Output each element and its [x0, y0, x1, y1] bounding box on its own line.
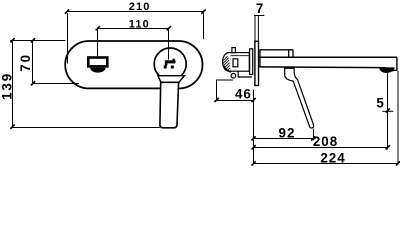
- dim 5 bar: [382, 110, 393, 112]
- handle neck junction line: [161, 81, 179, 83]
- dim 210 line: [67, 11, 204, 13]
- dim 224 line: [254, 163, 398, 165]
- dim 139 tick bottom: [10, 125, 14, 129]
- dim 224 tick right: [396, 161, 400, 165]
- dim 92 tick right: [311, 136, 315, 140]
- dim 139 bottom extension (to handle bottom): [13, 127, 160, 129]
- valve housing inner top line: [231, 55, 249, 57]
- spout tip end: [392, 57, 397, 70]
- handle escutcheon circle: [154, 48, 186, 80]
- dim 139 tick top: [10, 38, 14, 42]
- svg-text:46: 46: [235, 86, 252, 101]
- concealed valve end cap (hatched): [223, 53, 231, 72]
- lever handle (side, angled down): [285, 68, 314, 129]
- dim 110 extension right (handle axis): [168, 30, 170, 60]
- dim 210 tick right: [201, 10, 205, 14]
- dim 139 line: [12, 41, 14, 127]
- indicator dot left: [164, 66, 167, 69]
- dim 92 extension right (lever tip): [313, 129, 315, 140]
- valve outline lower-left corner: [217, 80, 234, 100]
- dim 210 tick left: [65, 10, 69, 14]
- dim 224 tick left: [252, 161, 256, 165]
- dim 208 tick left: [252, 145, 256, 149]
- dim 210 extension right: [203, 13, 205, 39]
- dim 208 line: [254, 147, 388, 149]
- dim 7 extension right: [257, 16, 259, 42]
- lever root dark strip: [285, 67, 294, 69]
- valve inner detail: [233, 59, 238, 67]
- mixer cartridge box behind wall: [260, 50, 293, 67]
- valve cap hatching: [223, 56, 230, 71]
- dim 70 bottom extension (to plate lower curve): [33, 83, 80, 85]
- dim 208 extension right (nozzle tip): [387, 73, 389, 150]
- svg-text:210: 210: [129, 1, 151, 13]
- dim 210 extension left: [67, 13, 69, 64]
- nozzle aerator crescent: [379, 67, 395, 73]
- dim 110 extension left (outlet axis): [97, 30, 99, 57]
- dim 46 tick right: [252, 98, 256, 102]
- dim 5 tick: [386, 108, 390, 112]
- dim 7 extension left: [254, 16, 256, 42]
- wall face chain extension line: [253, 90, 255, 164]
- svg-text:70: 70: [18, 53, 33, 72]
- dim 70 tick bottom: [31, 81, 35, 85]
- handle skirt (hides circle bottom arc): [158, 76, 185, 83]
- dim 110 line: [98, 28, 169, 30]
- indicator glyph left tail: [165, 63, 168, 65]
- spout bottom edge line: [259, 66, 386, 69]
- dim 110 tick left: [96, 26, 100, 30]
- dim 92 tick left: [252, 136, 256, 140]
- dim 139/70 top extension line: [10, 40, 65, 42]
- indicator dot right: [171, 66, 174, 69]
- svg-text:5: 5: [376, 96, 384, 111]
- valve top stub: [232, 48, 236, 53]
- dim 224 extension right (spout tip): [397, 71, 399, 165]
- wall plate (side, edge-on): [255, 41, 259, 85]
- svg-text:110: 110: [129, 19, 150, 31]
- valve cap bottom thick arc: [224, 66, 231, 72]
- dim 70 tick top: [31, 38, 35, 42]
- concealed valve housing: [230, 53, 249, 72]
- dim 7 bar: [254, 15, 264, 17]
- dim 92 line: [254, 138, 314, 140]
- spout tip inner line: [385, 68, 387, 71]
- handle lever body (front view, white fill hides plate edge): [160, 82, 179, 128]
- indicator glyph bar: [165, 60, 176, 63]
- spout outlet box (front view): [88, 58, 107, 67]
- dim 46 line: [217, 100, 254, 102]
- spout top edge line: [259, 56, 397, 58]
- valve neck flange: [250, 49, 253, 75]
- spout outlet aerator bowl: [90, 68, 106, 73]
- dim 46 tick left: [214, 98, 218, 102]
- valve bottom port: [231, 73, 236, 78]
- dim 110 axis line inside circle: [168, 48, 170, 59]
- indicator glyph right nub: [173, 59, 175, 61]
- valve lower step: [238, 71, 252, 77]
- dim 70 line: [32, 41, 34, 84]
- wall plate (stadium escutcheon): [65, 41, 202, 88]
- svg-text:139: 139: [0, 72, 14, 100]
- svg-text:208: 208: [313, 134, 338, 149]
- dim 208 tick right: [386, 145, 390, 149]
- dim 110 tick right: [167, 26, 171, 30]
- svg-text:7: 7: [256, 1, 264, 16]
